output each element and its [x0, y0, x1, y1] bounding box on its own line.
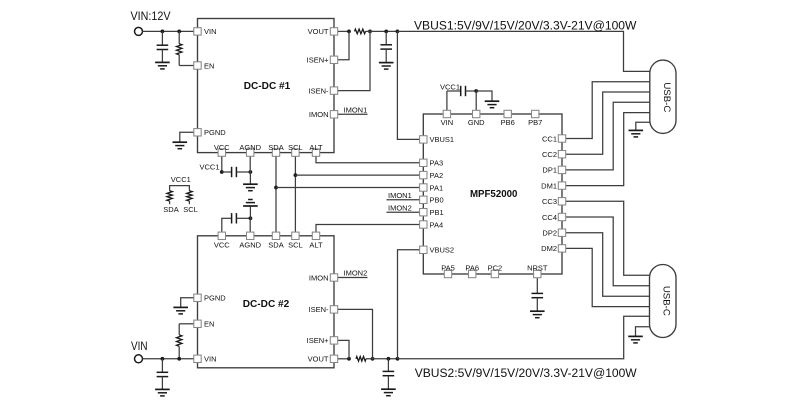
- svg-text:EN: EN: [204, 61, 214, 70]
- resistor R4 current sense: [356, 357, 366, 362]
- pin U3.CC3: [558, 198, 565, 205]
- svg-text:PB6: PB6: [501, 118, 515, 127]
- wire CC1 to J1: [566, 82, 650, 139]
- svg-text:GND: GND: [468, 118, 485, 127]
- pin U2.ALT: [312, 232, 319, 239]
- wire IMON2 net stub at U3.PB1: [387, 211, 420, 213]
- wire C2 to AGND: [236, 171, 250, 173]
- ground AGND2: [243, 200, 258, 207]
- svg-text:VIN: VIN: [204, 27, 217, 36]
- svg-text:PA4: PA4: [430, 220, 444, 229]
- svg-text:CC3: CC3: [542, 197, 557, 206]
- capacitor C5 output: [380, 45, 392, 49]
- wire VBUS2 to U3.VBUS2: [398, 250, 420, 359]
- wire U2.VOUT: [338, 358, 349, 360]
- ground AGND1: [243, 184, 258, 191]
- wire U1.IMON net stub: [338, 113, 368, 115]
- pin U1.VCC: [218, 149, 225, 156]
- svg-text:PB1: PB1: [430, 208, 444, 217]
- junction VBUS1 tap: [396, 30, 400, 34]
- svg-text:VCC1: VCC1: [171, 175, 191, 184]
- svg-text:IMON1: IMON1: [388, 191, 412, 200]
- wire VIN to U1.VIN: [143, 30, 194, 32]
- svg-text:PB7: PB7: [528, 118, 542, 127]
- wire AGND1 to ground: [249, 172, 251, 184]
- wire VBUS1 rail to J1: [397, 31, 649, 71]
- wire U2.IMON net stub: [338, 277, 368, 279]
- svg-text:ALT: ALT: [309, 240, 323, 249]
- svg-text:EN: EN: [204, 320, 214, 329]
- pin U2.ISEN+: [330, 337, 337, 344]
- ground J1: [629, 130, 644, 137]
- svg-text:SDA: SDA: [268, 143, 283, 152]
- svg-text:CC4: CC4: [542, 213, 557, 222]
- pin U3.VBUS1: [420, 136, 427, 143]
- pin U1.SDA: [272, 149, 279, 156]
- wire U1.ALT to U3.PA3: [316, 156, 420, 163]
- wire to C4: [221, 217, 231, 219]
- resistor R6 SCL pull-up: [187, 191, 192, 201]
- svg-text:VCC: VCC: [214, 143, 230, 152]
- wire VBUS1 to U3.VBUS1: [397, 31, 419, 139]
- wire DP2 to J2: [566, 233, 650, 297]
- wire C6 to ground: [161, 377, 163, 390]
- pin U2.PGND: [194, 294, 201, 301]
- junction VCC1 U1: [220, 170, 224, 174]
- svg-text:DP2: DP2: [542, 229, 557, 238]
- pin U3.CC4: [558, 213, 565, 220]
- resistor R3 current sense: [355, 29, 366, 34]
- ground NRST: [530, 311, 545, 318]
- wire C9 to ground: [536, 298, 538, 312]
- pin U1.PGND: [194, 129, 201, 136]
- junction R1: [177, 30, 181, 34]
- ground U3 VCC1: [485, 101, 500, 108]
- pin U3.PA1: [420, 184, 427, 191]
- pin U1.ALT: [312, 149, 319, 156]
- wire to R1: [178, 31, 180, 43]
- wire to U1.EN: [179, 65, 194, 67]
- pin U1.AGND: [247, 149, 254, 156]
- junction AGND2: [249, 216, 253, 220]
- svg-text:VIN:12V: VIN:12V: [131, 9, 171, 23]
- wire U2.PGND to ground: [181, 298, 194, 308]
- wire U1.AGND down: [249, 156, 251, 172]
- wire J2 shield to ground: [636, 327, 650, 337]
- junction output cap C5: [384, 30, 388, 34]
- resistor R2 EN pull-up: [177, 335, 182, 347]
- wire C1 to ground: [161, 50, 163, 63]
- pin U2.IMON: [330, 274, 337, 281]
- wire U2.EN: [179, 323, 194, 325]
- svg-text:ISEN-: ISEN-: [308, 305, 329, 314]
- wire to C7: [387, 359, 389, 372]
- wire EN to R2: [178, 324, 180, 335]
- wire pull-up bracket: [170, 186, 190, 191]
- wire U1.PGND to ground: [180, 132, 194, 142]
- USB PD controller U3 MPF52000: [423, 114, 562, 274]
- wire C8 to GND net: [465, 90, 476, 92]
- wire U2.AGND up: [249, 218, 251, 232]
- svg-text:IMON2: IMON2: [344, 269, 368, 278]
- pin U3.PA2: [420, 171, 427, 178]
- ground C1: [155, 62, 170, 69]
- pin U2.SDA: [272, 232, 279, 239]
- pin U3.PB1: [420, 209, 427, 216]
- svg-text:DP1: DP1: [542, 166, 557, 175]
- junction output cap C7: [387, 357, 391, 361]
- wire VBUS2 rail to J2: [398, 316, 650, 359]
- junction ISEN- sense 2: [371, 357, 375, 361]
- svg-text:VBUS2: VBUS2: [430, 246, 455, 255]
- svg-text:AGND: AGND: [239, 143, 261, 152]
- pin U1.EN: [194, 62, 201, 69]
- wire CC3 to J2: [566, 201, 650, 275]
- svg-text:MPF52000: MPF52000: [470, 188, 518, 200]
- ground C5: [379, 63, 394, 70]
- pin U2.ISEN-: [330, 306, 337, 313]
- wire R1 to EN row: [178, 55, 180, 66]
- pin U3.PB0: [420, 196, 427, 203]
- wire C5 to ground: [385, 49, 387, 63]
- wire DM1 to J1: [566, 113, 650, 186]
- pin U3.PA4: [420, 221, 427, 228]
- ground C7: [381, 389, 396, 396]
- svg-text:SDA: SDA: [268, 240, 283, 249]
- capacitor C2 VCC bypass: [232, 167, 237, 177]
- svg-text:VOUT: VOUT: [308, 355, 329, 364]
- svg-text:PA5: PA5: [441, 263, 455, 272]
- wire to ground U3: [476, 91, 492, 101]
- ground PGND1: [173, 142, 188, 149]
- wire U2.VCC up: [221, 218, 223, 232]
- pin U1.VOUT: [330, 28, 337, 35]
- junction SCL bus: [294, 173, 298, 177]
- wire CC4 to J2: [566, 217, 650, 286]
- svg-text:VCC: VCC: [214, 240, 230, 249]
- svg-text:PGND: PGND: [204, 294, 226, 303]
- resistor R1 EN pull-up: [177, 44, 182, 55]
- svg-text:ISEN+: ISEN+: [307, 336, 330, 345]
- ground C6: [155, 389, 170, 396]
- input terminal VIN:12V: [135, 27, 143, 35]
- input terminal VIN bottom: [135, 355, 143, 363]
- wire U3.VIN up: [446, 91, 448, 110]
- junction ISEN+ sense: [347, 30, 351, 34]
- wire CC2 to J1: [566, 92, 650, 154]
- svg-text:CC2: CC2: [542, 150, 557, 159]
- pin U2.SCL: [292, 232, 299, 239]
- pin U2.EN: [194, 320, 201, 327]
- wire to C6: [161, 359, 163, 373]
- junction U3 GND: [474, 89, 478, 93]
- svg-text:VBUS1:5V/9V/15V/20V/3.3V-21V@1: VBUS1:5V/9V/15V/20V/3.3V-21V@100W: [414, 18, 637, 32]
- capacitor C6 input: [157, 372, 169, 376]
- svg-text:VBUS2:5V/9V/15V/20V/3.3V-21V@1: VBUS2:5V/9V/15V/20V/3.3V-21V@100W: [415, 366, 637, 380]
- wire U3.GND up: [475, 91, 477, 110]
- wire sense to rail: [366, 30, 398, 32]
- svg-text:VIN: VIN: [131, 339, 148, 353]
- svg-text:NRST: NRST: [527, 263, 548, 272]
- svg-text:VIN: VIN: [441, 118, 454, 127]
- resistor R5 SDA pull-up: [167, 191, 172, 201]
- junction ISEN+ sense 2: [347, 357, 351, 361]
- svg-text:USB-C: USB-C: [661, 82, 672, 112]
- svg-text:IMON: IMON: [309, 273, 329, 282]
- pin U3.DP2: [558, 229, 565, 236]
- wire DP1 to J1: [566, 102, 650, 170]
- pin U2.VIN: [194, 355, 201, 362]
- svg-text:ISEN-: ISEN-: [308, 86, 329, 95]
- USB-C receptacle J2: [650, 265, 677, 338]
- svg-text:PA6: PA6: [465, 263, 479, 272]
- pin U2.VOUT: [330, 355, 337, 362]
- wire SCL bus: [294, 156, 296, 232]
- wire to C5: [385, 31, 387, 44]
- ground J2: [628, 336, 643, 343]
- pin U1.ISEN-: [330, 87, 337, 94]
- wire to C8: [447, 90, 461, 92]
- pin U3.DM2: [558, 245, 565, 252]
- pin U3.NRST: [534, 270, 541, 277]
- wire SDA to U3.PA1: [276, 187, 420, 189]
- svg-text:PC2: PC2: [488, 263, 503, 272]
- pin U3.PC2: [491, 270, 498, 277]
- svg-text:SCL: SCL: [288, 240, 303, 249]
- wire VIN to U2.VIN: [143, 358, 194, 360]
- svg-text:SCL: SCL: [288, 143, 303, 152]
- wire C7 to ground: [387, 376, 389, 390]
- pin U3.PA6: [469, 270, 476, 277]
- junction AGND1: [249, 170, 253, 174]
- junction VBUS2 tap: [396, 357, 400, 361]
- wire J1 shield to ground: [636, 122, 650, 130]
- wire U2.ISEN- to sense: [338, 309, 373, 358]
- svg-text:PB0: PB0: [430, 196, 444, 205]
- svg-text:SDA: SDA: [163, 205, 178, 214]
- junction SDA bus: [274, 186, 278, 190]
- wire SDA bus: [275, 156, 277, 232]
- capacitor C4 VCC bypass: [232, 213, 237, 223]
- pin U3.PB6: [504, 110, 511, 117]
- wire U2.ISEN+ to sense: [338, 340, 349, 358]
- svg-text:AGND: AGND: [239, 240, 261, 249]
- capacitor C8 VCC1 bypass: [461, 86, 466, 96]
- wire R6 stub: [188, 201, 190, 204]
- wire DM2 to J2: [566, 248, 650, 306]
- pin U3.PA5: [444, 270, 451, 277]
- wire U3.NRST down: [536, 278, 538, 294]
- svg-text:VIN: VIN: [204, 355, 217, 364]
- capacitor C1 input: [157, 45, 169, 49]
- svg-text:SCL: SCL: [183, 205, 198, 214]
- pin U3.CC2: [558, 151, 565, 158]
- pin U1.SCL: [292, 149, 299, 156]
- pin U3.VIN: [443, 110, 450, 117]
- svg-text:VCC1: VCC1: [200, 162, 220, 171]
- pin U3.PA3: [420, 159, 427, 166]
- svg-text:DM2: DM2: [541, 244, 557, 253]
- svg-text:ALT: ALT: [309, 143, 323, 152]
- svg-text:IMON1: IMON1: [344, 105, 368, 114]
- wire U2.ALT to U3.PA4: [316, 225, 420, 233]
- svg-text:USB-C: USB-C: [661, 286, 672, 316]
- svg-text:DC-DC #2: DC-DC #2: [243, 298, 290, 310]
- svg-text:VBUS1: VBUS1: [430, 135, 455, 144]
- svg-text:DM1: DM1: [541, 181, 557, 190]
- pin U1.VIN: [194, 28, 201, 35]
- wire U1.VCC down: [221, 156, 223, 172]
- svg-text:PA3: PA3: [430, 159, 444, 168]
- USB-C receptacle J1: [650, 60, 676, 133]
- wire U1.ISEN- to sense: [338, 31, 370, 90]
- wire sense to rail 2: [366, 358, 398, 360]
- svg-text:PA1: PA1: [430, 183, 444, 192]
- wire to C2: [222, 171, 232, 173]
- pin U2.AGND: [247, 232, 254, 239]
- pin U3.VBUS2: [420, 246, 427, 253]
- pin U3.CC1: [558, 135, 565, 142]
- wire R5 stub: [169, 201, 171, 204]
- wire U1.ISEN+ to sense: [338, 31, 349, 59]
- svg-text:CC1: CC1: [542, 134, 557, 143]
- dc-dc converter block U2 DC-DC #2: [198, 236, 335, 368]
- pin U3.DP1: [558, 166, 565, 173]
- wire to C1: [161, 31, 163, 45]
- pin U3.GND: [473, 110, 480, 117]
- pin U3.DM1: [558, 182, 565, 189]
- svg-text:VOUT: VOUT: [308, 27, 329, 36]
- capacitor C9 NRST: [532, 293, 544, 297]
- svg-text:DC-DC #1: DC-DC #1: [244, 80, 291, 92]
- wire SCL to U3.PA2: [295, 174, 419, 176]
- ground PGND2: [173, 307, 188, 314]
- svg-text:IMON: IMON: [309, 110, 329, 119]
- wire U1.VOUT: [338, 30, 349, 32]
- svg-text:VCC1: VCC1: [440, 83, 460, 92]
- svg-text:IMON2: IMON2: [388, 203, 412, 212]
- junction ISEN- sense: [368, 30, 372, 34]
- wire C4 to AGND: [236, 217, 250, 219]
- wire AGND2 to ground: [249, 206, 251, 218]
- svg-text:ISEN+: ISEN+: [307, 56, 330, 65]
- svg-text:PGND: PGND: [204, 128, 226, 137]
- wire R2 to VIN row: [178, 346, 180, 359]
- junction input cap 2: [161, 357, 165, 361]
- pin U1.ISEN+: [330, 56, 337, 63]
- capacitor C7 output: [383, 371, 395, 375]
- pin U1.IMON: [330, 111, 337, 118]
- junction R2: [177, 357, 181, 361]
- dc-dc converter block U1 DC-DC #1: [198, 19, 335, 153]
- svg-text:PA2: PA2: [430, 171, 444, 180]
- junction input cap: [161, 30, 165, 34]
- pin U3.PB7: [532, 110, 539, 117]
- pin U2.VCC: [218, 232, 225, 239]
- wire IMON1 net stub at U3.PB0: [387, 199, 420, 201]
